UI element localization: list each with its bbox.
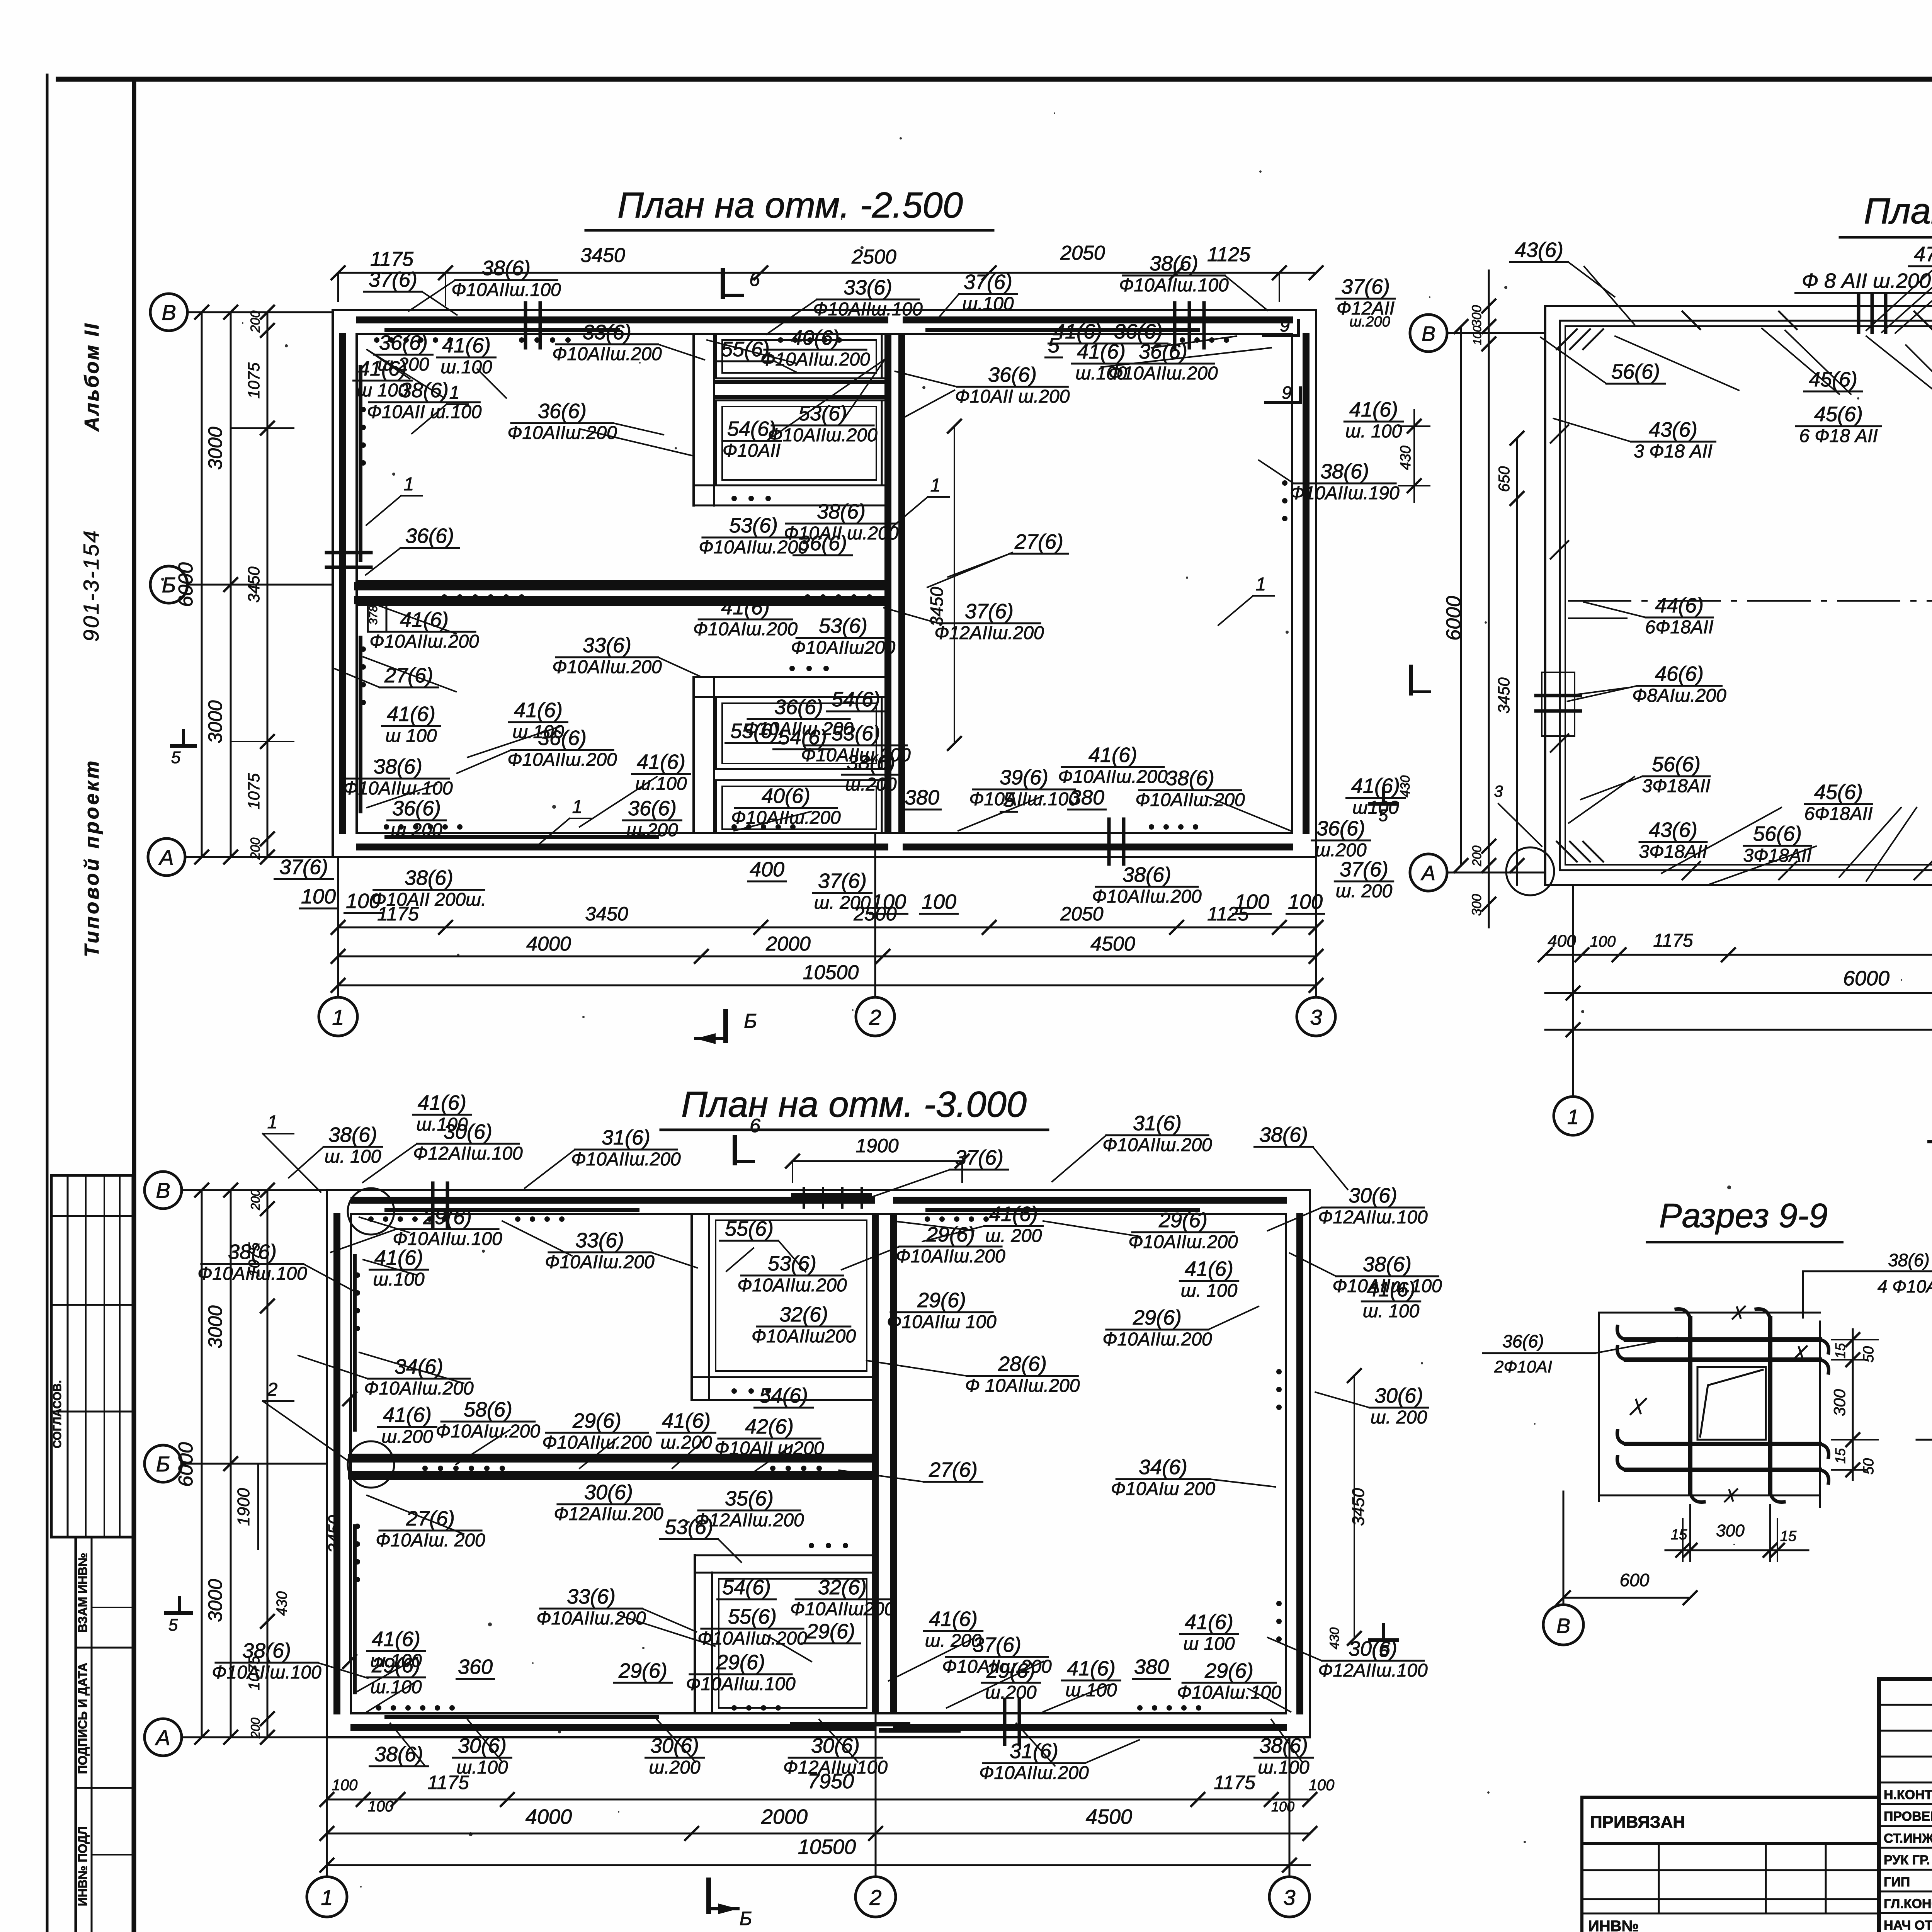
section concrete outline [1697, 1367, 1766, 1440]
svg-text:Ф10АIIш.100: Ф10АIIш.100 [451, 280, 561, 300]
svg-text:2000: 2000 [765, 933, 811, 955]
svg-text:100: 100 [1590, 933, 1616, 950]
svg-text:36(6): 36(6) [1316, 817, 1365, 840]
svg-text:29(6): 29(6) [423, 1206, 472, 1229]
svg-text:30(6): 30(6) [650, 1734, 699, 1757]
svg-text:430: 430 [274, 1591, 290, 1616]
svg-text:38(6): 38(6) [1320, 460, 1369, 483]
plan2 bottom axis bubbles [1554, 1097, 1592, 1135]
section dim 600 [1563, 1597, 1690, 1599]
plan1 section mark Б top [721, 270, 725, 297]
svg-text:378: 378 [367, 605, 380, 625]
svg-text:ПОДПИСЬ И ДАТА: ПОДПИСЬ И ДАТА [76, 1663, 90, 1774]
plan3 wall on axis Б [351, 1454, 873, 1456]
svg-text:41(6): 41(6) [383, 1403, 432, 1427]
svg-text:Ф10АIIш.200: Ф10АIIш.200 [1128, 1232, 1238, 1252]
plan1 top dimension chain [338, 272, 1316, 274]
svg-text:43(6): 43(6) [1649, 818, 1697, 842]
svg-text:33(6): 33(6) [583, 634, 631, 657]
svg-text:Ф12АIIш.100: Ф12АIIш.100 [1318, 1207, 1428, 1228]
svg-text:План на отм. -2.500: План на отм. -2.500 [617, 185, 963, 225]
svg-text:Ф10АIIш.200: Ф10АIIш.200 [545, 1252, 655, 1272]
plan1 left dimension chain 3000/3000 [230, 312, 232, 857]
svg-text:400: 400 [1548, 932, 1576, 951]
svg-text:НАЧ ОТД: НАЧ ОТД [1884, 1918, 1932, 1932]
plan1 right wall rebar band [1303, 336, 1310, 831]
svg-text:30(6): 30(6) [1349, 1184, 1397, 1207]
plan2 corner hatches [1557, 329, 1577, 349]
svg-text:29(6): 29(6) [1133, 1306, 1182, 1329]
svg-text:1175: 1175 [1214, 1772, 1255, 1793]
svg-text:55(6): 55(6) [730, 719, 779, 743]
svg-text:41(6): 41(6) [374, 1246, 423, 1269]
svg-text:41(6): 41(6) [1367, 1278, 1415, 1301]
svg-text:36(6): 36(6) [774, 696, 823, 719]
svg-text:100: 100 [922, 890, 956, 913]
svg-text:36(6): 36(6) [798, 532, 847, 555]
svg-text:2: 2 [869, 1885, 881, 1910]
svg-text:2Ф10АI: 2Ф10АI [1494, 1357, 1552, 1376]
svg-text:1075: 1075 [245, 773, 263, 810]
svg-text:3: 3 [1310, 1005, 1322, 1029]
plan3 upper shaft bottom wall [692, 1376, 873, 1378]
section dimension frame [1599, 1312, 1820, 1314]
svg-text:36(6): 36(6) [1114, 320, 1163, 343]
svg-text:100: 100 [871, 890, 906, 913]
svg-text:15: 15 [1780, 1528, 1797, 1544]
svg-text:ПРОВЕРИЛ: ПРОВЕРИЛ [1884, 1809, 1932, 1824]
plan1 rebar dots [374, 337, 379, 343]
svg-text:36(6): 36(6) [988, 363, 1037, 386]
svg-text:37(6): 37(6) [1341, 275, 1390, 298]
svg-text:38(6): 38(6) [400, 379, 449, 402]
svg-text:4000: 4000 [526, 1805, 572, 1828]
svg-text:3450: 3450 [927, 587, 947, 626]
svg-text:430: 430 [1398, 446, 1414, 470]
svg-text:Альбом II: Альбом II [81, 322, 103, 432]
svg-text:53(6): 53(6) [729, 514, 778, 537]
svg-text:47(6): 47(6) [1914, 243, 1932, 266]
svg-text:30(6): 30(6) [584, 1481, 633, 1504]
svg-text:29(6): 29(6) [1204, 1659, 1253, 1682]
svg-text:6000: 6000 [175, 1442, 197, 1487]
svg-text:28(6): 28(6) [998, 1352, 1047, 1376]
svg-text:29(6): 29(6) [371, 1654, 420, 1677]
svg-text:380: 380 [1134, 1655, 1169, 1679]
svg-text:27(6): 27(6) [1014, 530, 1063, 553]
svg-text:1075: 1075 [245, 362, 263, 399]
svg-text:36(6): 36(6) [405, 524, 454, 548]
svg-text:41(6): 41(6) [387, 702, 435, 726]
plan2 left wall bar marks [1536, 694, 1580, 697]
plan2 axis bubbles В and А [1410, 315, 1447, 352]
svg-text:ш.100: ш.100 [373, 1269, 425, 1290]
svg-text:41(6): 41(6) [929, 1607, 978, 1631]
svg-text:6 Ф18 АII: 6 Ф18 АII [1799, 426, 1878, 446]
svg-text:29(6): 29(6) [716, 1651, 765, 1674]
svg-text:3450: 3450 [585, 903, 628, 925]
svg-text:Н.КОНТР.: Н.КОНТР. [1884, 1787, 1932, 1802]
svg-text:Разрез 9-9: Разрез 9-9 [1659, 1196, 1828, 1235]
svg-text:Ф 10АIIш.200: Ф 10АIIш.200 [965, 1376, 1080, 1396]
plan1 shaft room 1 [716, 334, 882, 378]
plan3 top wall rebar band [354, 1197, 871, 1204]
svg-text:54(6): 54(6) [759, 1384, 808, 1407]
svg-text:ш.200: ш.200 [381, 1427, 433, 1447]
svg-text:Б: Б [156, 1452, 170, 1476]
svg-text:36(6): 36(6) [392, 797, 441, 820]
svg-text:Ф10АIIш.100: Ф10АIIш.100 [969, 789, 1079, 810]
svg-text:200: 200 [1470, 845, 1484, 867]
svg-text:55(6): 55(6) [728, 1605, 777, 1628]
svg-text:Ф10АIIш.200: Ф10АIIш.200 [896, 1246, 1005, 1267]
section horizontal bars with hooks [1626, 1337, 1820, 1342]
plan3 anchor bars below bottom wall [792, 1722, 908, 1726]
svg-text:300: 300 [1830, 1389, 1849, 1416]
svg-text:ш.200: ш.200 [660, 1432, 712, 1453]
svg-text:Ф10АIш 200: Ф10АIш 200 [1111, 1479, 1215, 1499]
svg-text:29(6): 29(6) [618, 1659, 667, 1682]
svg-text:Ф10АIIш.200: Ф10АIIш.200 [552, 344, 662, 364]
svg-text:29(6): 29(6) [572, 1409, 621, 1432]
plan3 axis row bubbles [145, 1172, 182, 1209]
svg-text:ВЗАМ ИНВ№: ВЗАМ ИНВ№ [76, 1553, 90, 1633]
svg-text:1: 1 [267, 1112, 278, 1133]
svg-text:41(6): 41(6) [514, 699, 563, 722]
svg-text:36(6): 36(6) [1502, 1331, 1544, 1351]
svg-text:56(6): 56(6) [1652, 753, 1701, 776]
privyazan box [1582, 1797, 1879, 1844]
svg-text:Ф10АIIш.200: Ф10АIIш.200 [1102, 1329, 1212, 1350]
svg-text:38(6): 38(6) [847, 751, 895, 774]
svg-text:Ф10АIш.100: Ф10АIш.100 [1177, 1682, 1281, 1703]
svg-text:Ф10АIIш.100: Ф10АIIш.100 [686, 1674, 796, 1694]
svg-text:38(6): 38(6) [1259, 1123, 1308, 1146]
svg-text:Ф10АIш.200: Ф10АIш.200 [693, 619, 798, 639]
svg-text:37(6): 37(6) [369, 268, 417, 291]
svg-text:6: 6 [750, 1115, 760, 1136]
svg-text:380: 380 [905, 786, 939, 809]
section vertical bars with hooks [1688, 1318, 1692, 1493]
svg-text:Ф10АII ш.200: Ф10АII ш.200 [955, 386, 1070, 407]
plan1 bar marks crossing walls [1173, 303, 1177, 348]
svg-text:200: 200 [248, 1718, 262, 1739]
svg-text:Ф10АIIш.200: Ф10АIIш.200 [1135, 790, 1245, 810]
plan1 axis row bubbles [150, 294, 187, 331]
svg-text:ИНВ№: ИНВ№ [1588, 1918, 1639, 1932]
svg-text:600: 600 [1620, 1570, 1650, 1590]
svg-text:А: А [158, 845, 173, 869]
svg-text:100: 100 [1271, 1799, 1294, 1815]
svg-text:37(6): 37(6) [965, 600, 1014, 623]
svg-text:300: 300 [1469, 305, 1484, 327]
svg-text:41(6): 41(6) [1351, 774, 1400, 798]
plan2 section mark 7 left edge [1409, 667, 1413, 694]
svg-text:ш. 100: ш. 100 [1181, 1281, 1238, 1301]
svg-text:РУК ГР.: РУК ГР. [1884, 1853, 1930, 1867]
svg-text:36(6): 36(6) [538, 400, 587, 423]
svg-text:41(6): 41(6) [1067, 1657, 1116, 1680]
svg-text:45(6): 45(6) [1814, 781, 1863, 804]
svg-text:29(6): 29(6) [1158, 1209, 1207, 1232]
plan1 left dimension chain 200/1075/3450/1075/200 [267, 312, 269, 857]
svg-text:Ф10АIIш.100: Ф10АIIш.100 [343, 778, 453, 799]
plan2 outer wall rectangle [1545, 306, 1932, 885]
svg-text:45(6): 45(6) [1814, 403, 1863, 426]
svg-text:30(6): 30(6) [1349, 1637, 1397, 1660]
svg-text:Ф10АIIш.200: Ф10АIIш.200 [737, 1275, 847, 1296]
section right dims [1852, 1329, 1854, 1480]
svg-text:36(6): 36(6) [538, 726, 587, 750]
plan1 shaft room 3 [716, 697, 882, 769]
svg-text:ш.100: ш.100 [1065, 1680, 1117, 1701]
svg-text:3450: 3450 [1349, 1488, 1368, 1526]
svg-text:100: 100 [301, 885, 336, 908]
plan1 bottom axis bubbles 1 2 3 [319, 997, 357, 1036]
svg-text:В: В [162, 300, 176, 325]
svg-text:41(6): 41(6) [1077, 340, 1126, 363]
plan1 shaft left wall upper [692, 334, 695, 505]
svg-text:ш. 100: ш. 100 [325, 1146, 381, 1167]
plan1 top wall rebar band [360, 316, 885, 323]
svg-text:ш 100: ш 100 [1183, 1634, 1235, 1654]
svg-text:Ф10АIIш.200: Ф10АIIш.200 [1058, 767, 1168, 787]
svg-text:41(6): 41(6) [1185, 1257, 1233, 1281]
plan1 shaft room3/4 wall [714, 768, 886, 770]
svg-text:5: 5 [171, 748, 181, 767]
svg-text:5: 5 [168, 1616, 178, 1634]
signature rows [1879, 1782, 1932, 1784]
svg-text:2: 2 [869, 1005, 881, 1029]
svg-text:55(6): 55(6) [725, 1217, 774, 1240]
svg-text:39(6): 39(6) [1000, 766, 1048, 789]
svg-text:38(6): 38(6) [1122, 863, 1171, 886]
svg-text:Ф12АIIш.100: Ф12АIIш.100 [1318, 1660, 1428, 1681]
svg-text:41(6): 41(6) [989, 1202, 1038, 1226]
svg-text:ш. 100: ш. 100 [1363, 1301, 1420, 1321]
plan1 inner wall face rectangle [357, 334, 1292, 833]
svg-text:54(6): 54(6) [832, 688, 880, 711]
svg-text:38(6): 38(6) [242, 1639, 291, 1662]
svg-text:ш. 200: ш. 200 [985, 1226, 1042, 1246]
svg-text:15: 15 [1832, 1343, 1848, 1359]
svg-text:37(6): 37(6) [964, 270, 1012, 294]
svg-text:Ф10АIIш.200: Ф10АIIш.200 [369, 631, 479, 652]
svg-text:37(6): 37(6) [973, 1633, 1021, 1656]
svg-text:430: 430 [1398, 776, 1413, 798]
svg-text:34(6): 34(6) [1139, 1456, 1187, 1479]
svg-text:37(6): 37(6) [955, 1146, 1003, 1169]
plan1 shaft left wall lower [692, 677, 695, 833]
svg-text:15: 15 [1832, 1448, 1848, 1464]
svg-text:54(6): 54(6) [727, 417, 776, 440]
svg-text:40(6): 40(6) [791, 326, 840, 349]
svg-text:ш.200: ш.200 [845, 774, 897, 795]
svg-text:Ф12АIIш.200: Ф12АIIш.200 [934, 623, 1044, 643]
svg-text:В: В [156, 1178, 170, 1202]
plan1 small leader lines [367, 350, 410, 379]
svg-text:41(6): 41(6) [721, 596, 770, 619]
svg-text:4 Ф10АII: 4 Ф10АII [1878, 1276, 1932, 1296]
svg-text:300: 300 [1469, 894, 1484, 916]
svg-text:41(6): 41(6) [637, 750, 685, 774]
svg-text:Ф10АIIш200: Ф10АIIш200 [790, 1599, 895, 1619]
svg-text:53(6): 53(6) [768, 1252, 816, 1275]
svg-text:38(6): 38(6) [328, 1123, 377, 1146]
svg-text:ш100: ш100 [1352, 798, 1399, 818]
svg-text:1175: 1175 [1653, 930, 1693, 951]
svg-text:1: 1 [404, 474, 414, 495]
svg-text:4000: 4000 [526, 933, 571, 955]
svg-text:10500: 10500 [803, 961, 859, 984]
svg-text:Ф12АIIш100: Ф12АIIш100 [783, 1757, 888, 1778]
svg-text:Ф10АII 200ш.: Ф10АII 200ш. [372, 889, 486, 910]
svg-text:4500: 4500 [1086, 1805, 1132, 1828]
svg-text:54(6): 54(6) [722, 1576, 771, 1599]
plan3 misc leaders [359, 1217, 410, 1233]
svg-text:53(6): 53(6) [832, 722, 880, 745]
svg-text:4500: 4500 [1090, 933, 1135, 955]
plan1 shaft room 4 [716, 780, 882, 833]
plan1 left dimension chain 6000 [201, 312, 203, 857]
plan1 bottom dimension chains [338, 927, 1316, 929]
plan1 wall on axis 2 [884, 334, 887, 833]
svg-text:38(6): 38(6) [405, 866, 453, 889]
svg-text:Ф10АIIш.100: Ф10АIIш.100 [1119, 275, 1229, 296]
plan1 outer wall rectangle [333, 310, 1316, 857]
svg-text:2000: 2000 [761, 1805, 808, 1828]
svg-text:1125: 1125 [1207, 243, 1251, 266]
svg-text:1: 1 [332, 1005, 344, 1029]
svg-text:38(6): 38(6) [374, 755, 422, 778]
plan3 top dimension 1900 [793, 1160, 962, 1162]
svg-text:Типовой проект: Типовой проект [81, 759, 103, 957]
svg-text:30(6): 30(6) [444, 1120, 492, 1143]
svg-text:ш.100: ш.100 [962, 294, 1014, 314]
svg-text:32(6): 32(6) [818, 1576, 867, 1599]
svg-text:901-3-154: 901-3-154 [79, 529, 103, 641]
plan1 inner-face short bands [386, 328, 618, 332]
svg-text:Ф10АIIш.200: Ф10АIIш.200 [979, 1763, 1089, 1783]
svg-text:46(6): 46(6) [1655, 662, 1704, 685]
svg-text:Ф10АIIш.200: Ф10АIIш.200 [760, 349, 870, 370]
svg-text:Ф10АIIш.200: Ф10АIIш.200 [1092, 886, 1202, 907]
binding edge line left [46, 75, 49, 1932]
svg-text:430: 430 [1327, 1628, 1342, 1650]
svg-text:Ф10АIIш.200: Ф10АIIш.200 [507, 423, 617, 443]
plan3 section mark Б bottom [706, 1880, 711, 1912]
plan1 left wall rebar band [339, 336, 346, 831]
svg-text:32(6): 32(6) [779, 1303, 828, 1326]
svg-text:2: 2 [267, 1379, 278, 1400]
svg-text:1: 1 [930, 475, 941, 496]
frame left border [132, 79, 136, 1932]
svg-text:3 Ф18 АII: 3 Ф18 АII [1634, 441, 1713, 462]
svg-text:3450: 3450 [580, 244, 625, 267]
svg-text:42(6): 42(6) [745, 1415, 794, 1438]
scan speckles [1186, 577, 1188, 579]
svg-text:1: 1 [449, 383, 460, 403]
plan3 inner wall face rectangle [351, 1214, 1286, 1713]
svg-text:200: 200 [248, 1189, 262, 1211]
svg-text:СТ.ИНЖ: СТ.ИНЖ [1884, 1831, 1932, 1846]
svg-text:56(6): 56(6) [1753, 822, 1802, 845]
svg-text:56(6): 56(6) [1611, 360, 1660, 383]
svg-text:2500: 2500 [851, 246, 896, 268]
svg-text:44(6): 44(6) [1655, 594, 1704, 617]
svg-text:38(6): 38(6) [228, 1240, 277, 1264]
svg-text:3450: 3450 [1495, 677, 1513, 714]
plan1 bottom wall rebar band [360, 844, 885, 850]
svg-text:53(6): 53(6) [819, 614, 867, 638]
svg-text:41(6): 41(6) [1349, 398, 1398, 421]
svg-text:Ф10АIIш200: Ф10АIIш200 [791, 638, 895, 658]
svg-text:38(6): 38(6) [482, 257, 531, 280]
svg-text:6000: 6000 [1843, 967, 1889, 990]
plan2 inner wall rectangle [1560, 321, 1932, 870]
svg-text:360: 360 [458, 1655, 493, 1679]
svg-text:А: А [155, 1725, 170, 1750]
svg-text:Ф10АIш. 200: Ф10АIш. 200 [376, 1530, 485, 1551]
svg-text:53(6): 53(6) [665, 1515, 713, 1539]
svg-text:ш. 200: ш. 200 [1336, 881, 1393, 901]
plan3 inner-face short bands [386, 1208, 638, 1212]
svg-text:ш.200: ш.200 [1315, 840, 1367, 861]
svg-text:33(6): 33(6) [567, 1585, 616, 1608]
svg-text:38(6): 38(6) [1888, 1250, 1929, 1270]
section bottom dims 15 300 15 [1665, 1549, 1808, 1551]
svg-text:37(6): 37(6) [818, 869, 867, 893]
plan2 left room lining [1565, 326, 1932, 865]
svg-text:Ф10АIIш.200: Ф10АIIш.200 [507, 750, 617, 770]
svg-text:3: 3 [1494, 782, 1503, 800]
svg-text:ш.200: ш.200 [649, 1757, 701, 1778]
svg-text:27(6): 27(6) [406, 1507, 455, 1530]
svg-text:3Ф18АII: 3Ф18АII [1642, 776, 1711, 796]
svg-text:41(6): 41(6) [442, 334, 491, 357]
plan1 section mark Б bottom [723, 1012, 728, 1041]
svg-text:38(6): 38(6) [1166, 767, 1214, 790]
svg-text:33(6): 33(6) [583, 321, 631, 344]
svg-text:100: 100 [1309, 1777, 1335, 1794]
svg-text:29(6): 29(6) [806, 1620, 855, 1643]
plan3 right wall rebar band [1296, 1216, 1303, 1711]
plan3 bottom axis bubbles [307, 1877, 347, 1917]
plan1 shaft room 3 top wall [694, 676, 886, 678]
svg-text:Ф10АIш.200: Ф10АIш.200 [436, 1421, 540, 1442]
plan2 long leader lines [1584, 267, 1634, 325]
svg-text:Ф10АIIш 100: Ф10АIIш 100 [887, 1312, 997, 1332]
svg-text:29(6): 29(6) [917, 1289, 966, 1312]
svg-text:5: 5 [1379, 806, 1388, 825]
svg-text:36(6): 36(6) [628, 797, 677, 820]
svg-text:Б: Б [162, 573, 176, 597]
svg-text:СОГЛАСОВ.: СОГЛАСОВ. [51, 1380, 64, 1449]
svg-text:В: В [1556, 1614, 1570, 1638]
svg-text:31(6): 31(6) [602, 1126, 650, 1149]
svg-text:31(6): 31(6) [1133, 1112, 1182, 1135]
svg-text:100: 100 [332, 1777, 358, 1794]
svg-text:3000: 3000 [204, 1305, 226, 1348]
svg-text:Ф10АII: Ф10АII [723, 440, 781, 461]
svg-text:58(6): 58(6) [464, 1398, 512, 1421]
svg-text:15: 15 [1671, 1527, 1687, 1543]
svg-text:План на отм. 0,200: План на отм. 0,200 [1864, 190, 1932, 231]
svg-text:41(6): 41(6) [1088, 743, 1137, 767]
plan3 upper shaft room [709, 1214, 873, 1377]
privyazan lower grid [1582, 1844, 1879, 1932]
upper left stamp table [51, 1175, 133, 1537]
